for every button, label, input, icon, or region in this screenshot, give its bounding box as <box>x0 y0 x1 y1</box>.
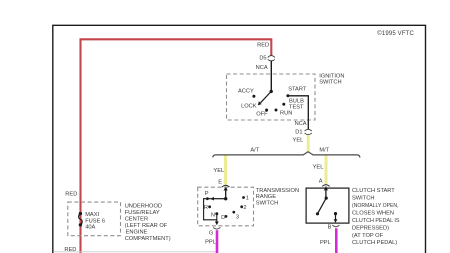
fuse MAXI FUSE 6 40A <box>79 212 82 215</box>
clutch switch blade (open) <box>318 198 327 214</box>
svg-text:FUSE 6: FUSE 6 <box>85 218 105 224</box>
contact START <box>286 94 289 97</box>
svg-text:3: 3 <box>236 215 239 221</box>
svg-text:TRANSMISSION: TRANSMISSION <box>256 188 299 194</box>
contact ACCY <box>252 95 255 98</box>
svg-text:FUSE/RELAY: FUSE/RELAY <box>125 210 160 216</box>
svg-text:40A: 40A <box>85 225 95 231</box>
ignition switch pivot <box>270 90 273 93</box>
svg-text:A: A <box>319 179 323 185</box>
svg-text:COMPARTMENT): COMPARTMENT) <box>125 236 171 242</box>
svg-text:(AT TOP OF: (AT TOP OF <box>352 233 384 239</box>
svg-text:SWITCH: SWITCH <box>352 196 374 202</box>
clutch start switch box <box>306 188 349 223</box>
contact 1 <box>242 196 245 199</box>
svg-text:SWITCH: SWITCH <box>256 200 278 206</box>
svg-text:1: 1 <box>246 195 249 201</box>
svg-text:PPL: PPL <box>320 240 331 246</box>
TRS pivot + wiper to P <box>224 197 227 200</box>
splice bus A/T M/T <box>213 152 360 158</box>
svg-text:P: P <box>205 191 209 197</box>
contact OFF <box>265 109 268 112</box>
svg-text:MAXI: MAXI <box>85 212 99 218</box>
connector B (cup) <box>332 225 339 227</box>
svg-text:LOCK: LOCK <box>241 104 257 110</box>
svg-text:(NORMALLY OPEN,: (NORMALLY OPEN, <box>352 203 399 209</box>
wire YEL D1 to split <box>307 135 310 153</box>
svg-text:ENGINE: ENGINE <box>126 230 148 236</box>
wire RED main (left vertical + top horizontal) <box>81 39 272 253</box>
wire black D5 to ignition switch pivot <box>270 61 272 92</box>
underhood fuse/relay center dashed box <box>68 202 121 236</box>
svg-text:DEPRESSED): DEPRESSED) <box>352 225 389 231</box>
connector A (cup + arrow) <box>322 185 330 187</box>
clutch switch input contact <box>325 197 328 200</box>
svg-text:OFF: OFF <box>256 112 268 118</box>
contact R <box>208 205 211 208</box>
transmission range switch dashed box <box>198 187 254 226</box>
contact 2 <box>240 205 243 208</box>
contact D <box>225 215 228 218</box>
svg-text:ACCY: ACCY <box>238 88 254 94</box>
connector D5 <box>268 56 275 61</box>
svg-text:RUN: RUN <box>280 110 292 116</box>
svg-text:E: E <box>218 179 222 185</box>
output drop with arrow <box>335 214 337 220</box>
svg-text:N: N <box>211 212 215 218</box>
svg-text:TEST: TEST <box>289 104 304 110</box>
connector G (cup) <box>213 227 220 229</box>
connector D1 <box>305 129 312 134</box>
svg-text:NCA: NCA <box>256 65 268 71</box>
svg-text:CLOSES WHEN: CLOSES WHEN <box>352 210 394 216</box>
svg-text:©1995 VFTC: ©1995 VFTC <box>377 30 414 37</box>
svg-text:R: R <box>204 205 208 211</box>
svg-text:RANGE: RANGE <box>256 194 276 200</box>
ignition switch dashed box <box>227 74 316 120</box>
contact P <box>206 197 209 200</box>
wire YEL right drop to A <box>325 156 328 185</box>
clutch switch input wire <box>325 190 327 198</box>
border frame <box>53 25 426 253</box>
svg-text:CLUTCH PEDAL IS: CLUTCH PEDAL IS <box>352 218 400 224</box>
clutch switch output contact <box>334 212 337 215</box>
svg-text:D5: D5 <box>259 56 266 62</box>
wire PPL right <box>335 228 338 253</box>
contact 3 <box>232 211 235 214</box>
svg-text:(LEFT REAR OF: (LEFT REAR OF <box>125 223 168 229</box>
wire black START output down to D1 <box>288 96 308 129</box>
svg-text:CENTER: CENTER <box>125 217 148 223</box>
svg-text:RED: RED <box>65 192 77 198</box>
svg-text:YEL: YEL <box>293 138 304 144</box>
svg-text:G: G <box>209 231 213 237</box>
svg-text:YEL: YEL <box>313 165 324 171</box>
contact N + output drop <box>215 212 218 215</box>
svg-text:CLUTCH START: CLUTCH START <box>352 188 395 194</box>
svg-text:YEL: YEL <box>213 168 224 174</box>
svg-text:D1: D1 <box>295 129 302 135</box>
svg-text:UNDERHOOD: UNDERHOOD <box>125 204 162 210</box>
svg-text:A/T: A/T <box>250 148 259 154</box>
wire P to output (L path) <box>204 199 217 220</box>
contact RUN <box>275 109 278 112</box>
connector E (cup + arrow) <box>222 185 230 187</box>
svg-text:M/T: M/T <box>319 147 329 153</box>
svg-text:RED: RED <box>257 43 269 49</box>
svg-text:PPL: PPL <box>205 240 216 246</box>
svg-text:2: 2 <box>243 205 246 211</box>
svg-text:START: START <box>288 87 307 93</box>
wire YEL left drop to E <box>224 156 227 185</box>
wire PPL left <box>216 230 219 253</box>
svg-text:CLUTCH PEDAL): CLUTCH PEDAL) <box>352 240 397 246</box>
svg-text:NCA: NCA <box>295 121 307 127</box>
svg-text:SWITCH: SWITCH <box>319 79 341 85</box>
faint scan line bottom <box>54 251 216 253</box>
wire into TRS pivot <box>225 190 227 199</box>
svg-text:D: D <box>221 215 225 221</box>
svg-text:B: B <box>328 225 332 231</box>
ignition switch wiper arm to LOCK <box>261 91 272 102</box>
contact BULB TEST <box>282 103 285 106</box>
